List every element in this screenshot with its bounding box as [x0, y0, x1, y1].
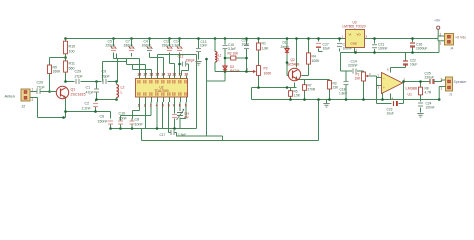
resistor R11 560	[64, 59, 68, 75]
svg-text:1,8K: 1,8K	[262, 47, 270, 51]
svg-text:16: 16	[149, 73, 153, 77]
svg-text:17: 17	[143, 73, 147, 77]
resistor R10 100	[64, 39, 68, 57]
label C8 10nF	[135, 118, 144, 127]
wire collector node y=81	[66, 54, 117, 82]
svg-text:C10: C10	[119, 112, 126, 116]
wire nest h64	[127, 59, 146, 76]
wire nest h69	[133, 65, 152, 76]
svg-text:R2 10K: R2 10K	[228, 52, 240, 56]
svg-text:L2: L2	[121, 86, 125, 90]
wire nest h58	[114, 53, 140, 82]
wire L2/C1 node y=99	[96, 94, 117, 112]
wire C21 drop	[374, 39, 376, 53]
capacitor C19 10nF	[242, 39, 250, 49]
svg-text:LM7805_TO220: LM7805_TO220	[343, 25, 366, 29]
resistor R1 1.8K	[257, 42, 270, 52]
wire nest h54	[158, 55, 197, 76]
svg-text:10: 10	[184, 73, 188, 77]
svg-text:27pF: 27pF	[37, 86, 46, 90]
resistor R9 160K	[48, 58, 66, 92]
wire R8 C24 ground leg	[420, 82, 422, 113]
svg-text:330pF: 330pF	[186, 59, 195, 63]
svg-text:13: 13	[167, 73, 171, 77]
regulator U3 LM7805_TO220	[342, 21, 368, 53]
svg-text:3: 3	[366, 35, 368, 39]
svg-text:3.3nF: 3.3nF	[172, 44, 181, 48]
wire P1 wiper to op-amp	[369, 76, 377, 78]
svg-text:160K: 160K	[53, 70, 62, 74]
capacitor C10 10nF	[118, 119, 123, 129]
svg-text:15: 15	[155, 73, 159, 77]
label J1	[449, 93, 453, 97]
junction dots right	[257, 51, 440, 101]
label Speaker	[454, 80, 468, 84]
ground below C24	[417, 114, 423, 118]
svg-text:1000uF: 1000uF	[416, 47, 428, 51]
wire D2 branch	[207, 58, 226, 81]
junction dots mid	[48, 56, 248, 130]
label L2	[121, 86, 125, 95]
capacitor C6 150nF	[108, 121, 113, 129]
connector J4 battery	[440, 33, 454, 46]
svg-text:2: 2	[440, 33, 442, 37]
svg-text:10nF: 10nF	[119, 117, 128, 121]
resistor R2 10K	[228, 52, 240, 61]
svg-text:P2: P2	[264, 67, 268, 71]
label C2 2.2nF	[82, 102, 92, 111]
svg-text:+9V: +9V	[434, 19, 441, 23]
wire Q2 collector	[297, 39, 305, 80]
capacitor C29 27pF	[76, 79, 79, 84]
capacitor C14 220nF	[353, 69, 356, 74]
svg-text:220uF: 220uF	[425, 76, 435, 80]
svg-text:100K: 100K	[264, 72, 273, 76]
label C7 330pF	[124, 40, 134, 48]
capacitor C14 3.3nF	[177, 39, 183, 57]
svg-text:2: 2	[378, 74, 380, 78]
capacitor C2 2.2nF	[93, 104, 98, 109]
ground below C13	[195, 62, 201, 66]
capacitor C4 100nF	[147, 39, 153, 57]
label C10 10nF	[119, 112, 128, 121]
label D2 BA244	[230, 65, 240, 73]
svg-text:6: 6	[168, 103, 170, 107]
svg-text:C29: C29	[75, 70, 82, 74]
svg-text:1: 1	[441, 87, 443, 91]
wire R1/P2 column	[258, 39, 260, 88]
svg-text:R4: R4	[312, 55, 316, 59]
capacitor C24 100nF	[418, 102, 435, 110]
svg-text:C17: C17	[160, 133, 166, 137]
capacitor C1 47pF	[94, 82, 99, 94]
resistor R8 4.7R	[419, 86, 432, 97]
wire audio feed to volume pot	[341, 53, 364, 100]
trimmer capacitor C16	[177, 109, 185, 120]
svg-text:C9: C9	[102, 70, 107, 74]
svg-text:Zener: Zener	[281, 45, 290, 49]
svg-text:6: 6	[387, 68, 389, 72]
label C12 330pF	[178, 55, 195, 63]
label C6 150nF	[98, 115, 109, 124]
potentiometer P1 volume	[355, 72, 372, 81]
svg-text:1: 1	[138, 103, 140, 107]
wire R7 column	[304, 80, 306, 100]
label J2	[22, 105, 26, 109]
svg-text:270R: 270R	[308, 88, 316, 92]
svg-text:L: L	[121, 91, 123, 95]
capacitor C20 27pF	[35, 89, 57, 94]
svg-text:10K: 10K	[355, 76, 362, 80]
inductor L1	[215, 39, 217, 72]
svg-text:C20: C20	[37, 81, 44, 85]
svg-text:23K: 23K	[333, 86, 340, 90]
wire tank node y=57.5	[225, 49, 247, 58]
wire bottom pin drops	[121, 102, 187, 133]
svg-text:Q2: Q2	[291, 58, 295, 62]
potentiometer P2 100K	[247, 64, 273, 78]
wire opamp supply drop	[391, 53, 406, 73]
label C9 39pF	[102, 70, 111, 79]
inductor L2	[117, 82, 119, 100]
svg-text:9: 9	[185, 103, 187, 107]
svg-text:1.8nF: 1.8nF	[339, 91, 347, 95]
svg-text:10uF: 10uF	[410, 63, 417, 67]
transistor Q1 2SC1815	[56, 86, 68, 98]
svg-text:TDA7000: TDA7000	[154, 89, 168, 93]
svg-text:LM386: LM386	[406, 87, 418, 91]
svg-text:+: +	[383, 86, 385, 90]
svg-text:5: 5	[404, 78, 406, 82]
wire R3 column	[305, 80, 330, 100]
svg-text:7: 7	[173, 103, 175, 107]
label R11 560	[69, 62, 75, 71]
wire supply/ground bus y=52	[341, 41, 440, 53]
svg-text:C12: C12	[178, 55, 184, 59]
wire emitter net y=111	[66, 99, 111, 119]
svg-text:100K: 100K	[312, 59, 321, 63]
power symbol +9V	[434, 19, 441, 30]
svg-text:2: 2	[441, 78, 443, 82]
svg-text:3: 3	[378, 86, 380, 90]
capacitor C22 10uF	[403, 59, 417, 67]
wire C26 drop	[412, 39, 414, 53]
resistor R4 100K	[307, 51, 321, 67]
label C14 220nF	[348, 60, 358, 68]
svg-text:VO: VO	[357, 33, 362, 37]
svg-text:220pF: 220pF	[106, 44, 116, 48]
diode D1 Zener	[281, 41, 290, 55]
junction dots rail	[64, 37, 414, 40]
svg-text:4: 4	[156, 103, 158, 107]
wire opamp output	[403, 81, 442, 83]
wire nest cap4 to pin12	[170, 53, 175, 76]
svg-text:330pF: 330pF	[124, 44, 134, 48]
IC U2 pin stubs	[140, 76, 187, 103]
resistor R7 270R	[303, 84, 316, 92]
svg-text:1,5K: 1,5K	[294, 94, 301, 98]
svg-text:J1: J1	[449, 93, 453, 97]
wire nest h57 to pin 14	[150, 53, 164, 76]
svg-text:10nF: 10nF	[242, 43, 250, 47]
capacitor C23 10uF	[387, 101, 398, 116]
svg-text:1: 1	[32, 88, 34, 92]
wire varicap loop x=206	[177, 59, 223, 141]
svg-text:2SC1815: 2SC1815	[71, 93, 86, 97]
capacitor C15 3.3nF	[223, 39, 237, 52]
capacitor C11 150pF	[167, 39, 173, 57]
capacitor C25 220uF	[425, 72, 437, 85]
ground on bus	[323, 100, 329, 108]
capacitor C9 39pF	[103, 79, 106, 84]
wire varicap wiper y=71	[215, 49, 251, 72]
wire D1 column	[287, 39, 289, 76]
svg-text:2: 2	[247, 67, 249, 71]
wire regulator gnd stub	[354, 48, 356, 53]
svg-text:10uF: 10uF	[387, 112, 394, 116]
label L1	[218, 54, 222, 62]
svg-text:C8: C8	[135, 118, 140, 122]
label C20 27pF	[37, 81, 46, 90]
svg-text:3,3nF: 3,3nF	[228, 47, 236, 51]
svg-text:U1: U1	[408, 93, 412, 97]
wire R5 column	[290, 88, 292, 100]
wire battery stubs	[438, 30, 445, 41]
svg-text:GND: GND	[351, 42, 359, 46]
label C1 47pF	[86, 86, 95, 95]
svg-text:1: 1	[440, 42, 442, 46]
wire C13 ground drop	[198, 39, 200, 60]
svg-text:BA244: BA244	[230, 69, 240, 73]
wire opamp feedback C23 loop	[377, 82, 404, 104]
label Anten	[5, 94, 15, 99]
svg-text:22p: 22p	[184, 115, 189, 119]
svg-text:Q1: Q1	[71, 88, 76, 92]
svg-text:11: 11	[178, 73, 182, 77]
wire nest cap5/C12	[180, 53, 189, 76]
svg-text:+9 Vdc: +9 Vdc	[455, 36, 466, 40]
svg-text:J4: J4	[450, 47, 454, 51]
wire C19 drop	[246, 39, 248, 45]
svg-text:J2: J2	[22, 105, 26, 109]
op IC U2 TDA7000	[136, 73, 189, 108]
svg-text:BC548B: BC548B	[288, 63, 300, 67]
label +9 Vdc	[455, 36, 466, 40]
svg-text:100nF: 100nF	[142, 44, 152, 48]
svg-text:3: 3	[150, 103, 152, 107]
svg-text:220nF: 220nF	[348, 64, 358, 68]
label C5 220pF	[106, 40, 116, 48]
label R10 100	[69, 45, 76, 54]
svg-text:1: 1	[342, 35, 344, 39]
svg-text:R11: R11	[69, 62, 75, 66]
wire C29 39pF chain verticals	[103, 62, 127, 82]
label LM386 U1	[406, 87, 418, 97]
svg-text:2: 2	[369, 72, 371, 76]
label C4 100nF	[142, 40, 152, 48]
wire C27 drop	[319, 39, 323, 52]
capacitor C13 10nF	[196, 40, 207, 52]
svg-text:100nF: 100nF	[378, 47, 388, 51]
svg-text:27pF: 27pF	[75, 75, 84, 79]
wire R4 drop	[302, 39, 309, 76]
svg-text:2: 2	[32, 98, 34, 102]
svg-text:C6: C6	[100, 115, 105, 119]
svg-text:150nF: 150nF	[98, 120, 109, 124]
svg-text:100nF: 100nF	[426, 106, 435, 110]
label C14 3.3nF	[172, 40, 181, 48]
svg-text:39pF: 39pF	[102, 75, 111, 79]
svg-text:18: 18	[137, 73, 141, 77]
capacitor C26 1000uF	[410, 43, 428, 51]
capacitor C5 220pF	[111, 39, 117, 57]
svg-text:10nF: 10nF	[135, 123, 144, 127]
svg-text:1.5nF: 1.5nF	[178, 133, 186, 137]
svg-text:D1: D1	[283, 41, 287, 45]
capacitor C17 1.5nF	[160, 130, 187, 137]
diode D2 BA244	[223, 64, 227, 72]
label R9 160K	[53, 66, 62, 74]
capacitor C7 330pF	[129, 39, 135, 57]
wire Q2 emitter	[294, 83, 296, 88]
label J4	[450, 47, 454, 51]
capacitor C12 330pF	[183, 62, 186, 67]
svg-text:VI: VI	[349, 33, 352, 37]
svg-text:47pF: 47pF	[86, 91, 95, 95]
svg-text:C1: C1	[86, 86, 91, 90]
svg-text:14: 14	[161, 73, 165, 77]
wire +V rail	[66, 38, 439, 40]
wire bottom cluster bus y=128	[111, 128, 197, 130]
svg-text:150pF: 150pF	[162, 44, 172, 48]
capacitor C27 10uF	[316, 43, 330, 51]
svg-text:2.2nF: 2.2nF	[82, 107, 92, 111]
op-amp U1 LM386	[378, 68, 406, 101]
connector J2 Anten	[21, 88, 35, 103]
svg-text:2: 2	[356, 49, 358, 53]
label C11 150pF	[162, 40, 172, 48]
svg-text:C2: C2	[85, 102, 90, 106]
svg-text:Speaker: Speaker	[454, 80, 468, 84]
svg-text:−: −	[383, 77, 385, 81]
svg-text:2: 2	[144, 103, 146, 107]
svg-text:10uF: 10uF	[323, 47, 331, 51]
wire Q2 emitter bus y=87	[252, 87, 297, 89]
connector J1 Speaker	[439, 77, 452, 91]
wire mid vertical x=196	[196, 55, 198, 129]
transistor Q2 BC548B	[288, 58, 301, 81]
wire opamp inputs	[377, 78, 383, 100]
label C16 22p	[184, 112, 190, 120]
svg-text:12: 12	[172, 73, 176, 77]
svg-text:R1: R1	[262, 42, 266, 46]
capacitor C3 small	[172, 115, 177, 118]
svg-text:Anten: Anten	[5, 94, 15, 99]
wire C17 drop	[339, 39, 341, 52]
resistor R5 1.5K	[289, 90, 301, 98]
wire speaker return	[438, 87, 440, 100]
svg-text:100: 100	[69, 50, 75, 54]
wire bottom long y=141	[142, 100, 319, 141]
resistor R3 23K	[328, 81, 340, 90]
capacitor C21 100nF	[372, 43, 388, 51]
label C29 27pF	[75, 70, 84, 79]
capacitor C8 10nF	[130, 119, 135, 129]
wire audio/ground bus y=99	[252, 88, 440, 100]
capacitor C17b 100nF	[337, 43, 352, 51]
svg-text:R10: R10	[69, 45, 76, 49]
svg-text:8: 8	[179, 103, 181, 107]
wire antenna return	[35, 98, 66, 118]
svg-text:5: 5	[162, 103, 164, 107]
label Q1 2SC1815	[71, 88, 86, 97]
svg-text:4,7R: 4,7R	[425, 91, 432, 95]
capacitor C18 1.8nF	[339, 82, 349, 96]
svg-text:L: L	[218, 58, 220, 62]
svg-text:10nF: 10nF	[200, 44, 207, 48]
wire trimmer/caps bottom links	[169, 133, 177, 137]
wire C18 branch	[345, 71, 347, 100]
